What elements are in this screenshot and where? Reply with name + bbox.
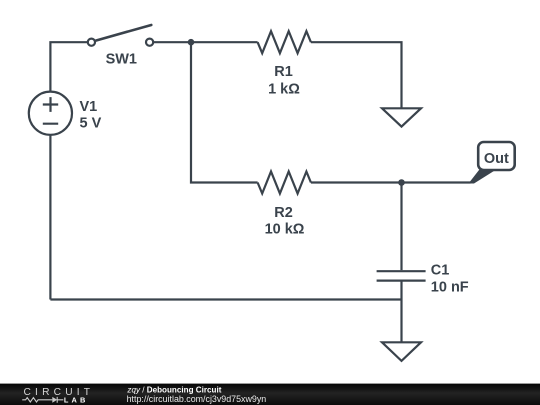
label Out: [484, 151, 509, 167]
svg-text:5 V: 5 V: [80, 116, 102, 132]
svg-text:R2: R2: [274, 205, 293, 221]
wire: bottom rail: [50, 298, 401, 300]
svg-text:1 kΩ: 1 kΩ: [268, 82, 300, 98]
svg-text:V1: V1: [80, 99, 98, 115]
svg-text:R1: R1: [274, 64, 293, 80]
footer bar: [0, 384, 540, 405]
wire: capacitor to ground: [400, 280, 402, 343]
node junction dot top: [188, 39, 195, 46]
wire: V1 top to switch: [50, 42, 87, 91]
svg-text:http://circuitlab.com/cj3v9d75: http://circuitlab.com/cj3v9d75xw9yn: [127, 394, 267, 404]
ground for R1: [382, 108, 421, 126]
resistor R2: [258, 172, 311, 194]
wire: R1 to ground: [311, 42, 402, 108]
label C1 value: [431, 263, 469, 296]
resistor R1: [258, 31, 311, 53]
voltage source V1: [29, 92, 72, 135]
wire: junction to capacitor: [400, 183, 402, 271]
footer logo CIRCUIT: [24, 387, 95, 398]
switch SW1: [88, 25, 153, 46]
wire: R2 to Out: [311, 181, 471, 183]
svg-text:Out: Out: [484, 151, 509, 167]
footer title text: [126, 385, 221, 394]
wire: junction down and to R2: [191, 42, 258, 182]
node junction dot middle: [398, 179, 405, 186]
footer logo LAB: [64, 396, 89, 405]
svg-text:SW1: SW1: [106, 52, 137, 68]
ground for C1: [382, 342, 421, 361]
label R2 value: [265, 205, 305, 238]
node Out flag: [469, 142, 515, 184]
svg-text:LAB: LAB: [64, 396, 89, 405]
capacitor C1: [377, 271, 426, 280]
svg-text:10 kΩ: 10 kΩ: [265, 222, 305, 238]
wire: V1 bottom to bottom rail: [49, 135, 51, 300]
label V1 value: [80, 99, 102, 132]
wire: switch to R1: [153, 41, 257, 43]
label R1 value: [268, 64, 300, 98]
label SW1: [106, 52, 137, 68]
svg-text:10 nF: 10 nF: [431, 280, 469, 296]
footer logo resistor-diode glyph: [22, 397, 63, 403]
footer url text: [127, 394, 267, 404]
svg-text:C1: C1: [431, 263, 450, 279]
